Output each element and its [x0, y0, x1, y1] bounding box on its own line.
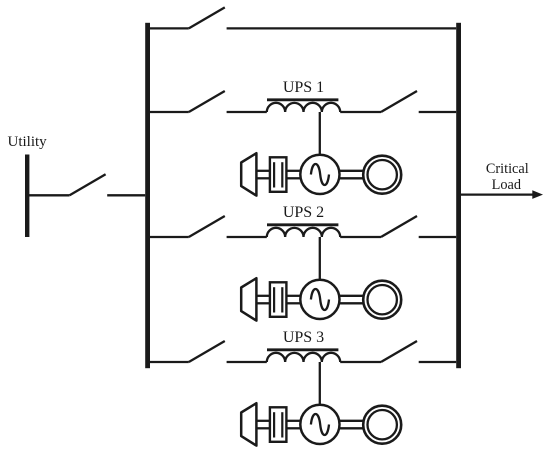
input bus (left vertical bus): [145, 23, 150, 368]
capacitor C3 enclosure box: [270, 407, 287, 442]
transformer T3 (double circle) outer ring: [363, 406, 401, 444]
wire switch S3a to inductor L3: [227, 361, 267, 363]
capacitor C2 enclosure box: [270, 282, 287, 317]
transformer T2 (double circle) outer ring: [363, 281, 401, 319]
wires inverter U3 to transformer T3: [340, 421, 365, 429]
wire inductor L2 to switch S2b: [340, 236, 381, 238]
wire switch S3b to output bus: [419, 361, 457, 363]
capacitor C3 plates: [274, 412, 282, 437]
svg-text:UPS 2: UPS 2: [283, 204, 324, 221]
transformer T1 inner ring: [368, 160, 397, 189]
inductor L3 core bar: [267, 348, 338, 351]
wire inductor L1 tap to inverter U1: [319, 112, 321, 156]
transformer T3 inner ring: [368, 410, 397, 439]
wire switch S2b to output bus: [419, 236, 457, 238]
critical load feeder wire: [461, 193, 534, 195]
inductor L1 winding: [267, 103, 340, 112]
capacitor C1 enclosure box: [270, 157, 287, 192]
DC link wires C2 to inverter U2: [286, 296, 300, 304]
wires inverter U2 to transformer T2: [340, 296, 365, 304]
DC link wires C1 to inverter U1: [286, 171, 300, 179]
inverter U2 sine symbol: [311, 289, 329, 310]
svg-text:UPS 1: UPS 1: [283, 79, 324, 96]
utility bus bar: [25, 155, 29, 238]
inductor L1 core bar: [267, 98, 338, 101]
DC link wires REC3 to C3: [256, 421, 270, 429]
wire switch SU to input bus: [107, 194, 145, 196]
switch SB blade (bypass): [189, 7, 225, 28]
transformer T1 (double circle) outer ring: [363, 156, 401, 194]
svg-text:Load: Load: [492, 177, 521, 193]
switch S3a blade (UPS 3 input): [189, 341, 225, 362]
rectifier REC3 (trapezoid): [241, 403, 256, 445]
inductor L2 core bar: [267, 223, 338, 226]
inductor L3 winding: [267, 353, 340, 362]
wire switch S1a to inductor L1: [227, 111, 267, 113]
switch S1a blade (UPS 1 input): [189, 91, 225, 112]
switch SU blade (utility disconnect): [70, 174, 106, 195]
wire utility bus to switch SU: [29, 194, 70, 196]
inverter U3 sine symbol: [311, 414, 329, 435]
wire input bus to bypass switch SB: [150, 27, 189, 29]
inverter U3 (AC source circle): [300, 405, 339, 444]
rectifier REC1 (trapezoid): [241, 153, 256, 195]
inductor L2 winding: [267, 228, 340, 237]
wire inductor L2 tap to inverter U2: [319, 237, 321, 281]
output bus (right vertical bus): [456, 23, 461, 368]
svg-text:Utility: Utility: [8, 134, 48, 150]
inverter U1 sine symbol: [311, 164, 329, 185]
switch S2a blade (UPS 2 input): [189, 216, 225, 237]
wire switch S1b to output bus: [419, 111, 457, 113]
wire input bus to switch S1a: [150, 111, 189, 113]
switch S2b blade (UPS 2 output): [381, 216, 417, 237]
wire inductor L3 to switch S3b: [340, 361, 381, 363]
switch S3b blade (UPS 3 output): [381, 341, 417, 362]
svg-text:UPS 3: UPS 3: [283, 329, 324, 346]
svg-text:Critical: Critical: [486, 161, 529, 177]
rectifier REC2 (trapezoid): [241, 278, 256, 320]
wire input bus to switch S3a: [150, 361, 189, 363]
inverter U2 (AC source circle): [300, 280, 339, 319]
switch S1b blade (UPS 1 output): [381, 91, 417, 112]
capacitor C2 plates: [274, 287, 282, 312]
wires inverter U1 to transformer T1: [340, 171, 365, 179]
inverter U1 (AC source circle): [300, 155, 339, 194]
capacitor C1 plates: [274, 162, 282, 187]
wire inductor L3 tap to inverter U3: [319, 362, 321, 406]
DC link wires C3 to inverter U3: [286, 421, 300, 429]
transformer T2 inner ring: [368, 285, 397, 314]
critical load arrowhead: [532, 190, 543, 199]
wire switch S2a to inductor L2: [227, 236, 267, 238]
wire input bus to switch S2a: [150, 236, 189, 238]
wire bypass switch SB to output bus: [227, 27, 457, 29]
DC link wires REC1 to C1: [256, 171, 270, 179]
wire inductor L1 to switch S1b: [340, 111, 381, 113]
DC link wires REC2 to C2: [256, 296, 270, 304]
